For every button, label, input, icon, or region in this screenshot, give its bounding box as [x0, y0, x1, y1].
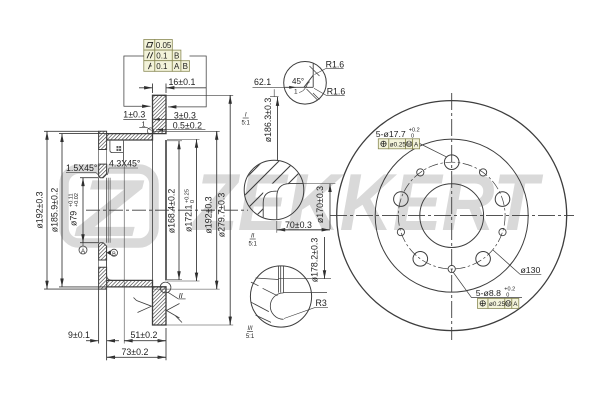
section: small circle marker at top wall/ring junction	[147, 128, 153, 134]
svg-text:0.05: 0.05	[156, 41, 172, 50]
svg-text:ø192±0.3: ø192±0.3	[35, 191, 45, 228]
svg-text:II: II	[251, 234, 255, 240]
datum balloon B on flange face	[107, 249, 118, 257]
dimension 3±0.3	[153, 110, 198, 120]
front view: wheel bolt hole Ø17.7 #3	[413, 251, 428, 266]
svg-text:ø192±0.3: ø192±0.3	[204, 196, 214, 233]
detail II circle (hat corner detail)	[178, 150, 354, 230]
svg-text:0.1: 0.1	[156, 62, 168, 71]
svg-text:0: 0	[190, 200, 196, 203]
detail III circle (R3 fillet detail)	[250, 266, 327, 327]
section: mounting flange top (hatched, with bolt hole gap)	[99, 131, 107, 177]
svg-text:ø130: ø130	[521, 265, 541, 275]
front view: wheel bolt hole Ø17.7 #4	[476, 251, 491, 266]
section: hat top wall (hatched)	[107, 134, 153, 140]
svg-text:1: 1	[294, 89, 298, 96]
dimension 1±0.3	[123, 110, 146, 120]
detail I dimension Ø186.3±0.3	[263, 89, 279, 160]
front view: small hole Ø8.8 #5	[499, 229, 506, 236]
section: bore silhouette lines	[99, 178, 111, 243]
svg-text:51±0.2: 51±0.2	[131, 330, 158, 340]
front view: small hole Ø8.8 #4	[448, 265, 455, 272]
svg-text:5-ø8.8: 5-ø8.8	[476, 288, 501, 298]
svg-text:ø170±0.3: ø170±0.3	[315, 186, 325, 223]
svg-text:ø185.9±0.2: ø185.9±0.2	[50, 188, 60, 233]
svg-text:R3: R3	[316, 298, 327, 308]
detail I labels R1.6	[314, 59, 345, 96]
svg-text:B: B	[112, 251, 116, 257]
svg-text:B: B	[183, 62, 188, 71]
svg-text:ø172.1: ø172.1	[184, 205, 194, 232]
section: hat bottom wall (hatched)	[107, 280, 153, 287]
tolerance frame leaders to both friction faces	[124, 56, 206, 107]
section: friction ring bottom (hatched)	[153, 287, 167, 325]
watermark: Zekkert logo badge	[64, 164, 154, 254]
front view: centerlines	[330, 93, 574, 340]
detail I scale label I/5:1	[242, 113, 251, 127]
section: bottom inner corner fillet	[107, 246, 113, 280]
svg-text:R1.6: R1.6	[327, 86, 346, 96]
svg-text:+0.02: +0.02	[74, 193, 80, 207]
section: mounting flange bottom (hatched, with small hole gap)	[99, 243, 107, 289]
section view: disc axis centerline	[86, 209, 248, 211]
detail I circle (edge chamfer detail)	[284, 62, 327, 105]
surface roughness checks at bottom ring faces	[134, 298, 183, 323]
svg-text:3±0.3: 3±0.3	[174, 110, 196, 120]
front view: outer circle Ø279.7	[337, 101, 567, 331]
front view: wheel bolt hole Ø17.7 #1	[444, 155, 459, 170]
svg-text:1.5X45°: 1.5X45°	[66, 163, 97, 173]
tolerance frame (flatness / parallelism / runout)	[144, 40, 190, 72]
svg-text:ø79: ø79	[69, 211, 79, 226]
label 1 with leader to junction step	[139, 122, 151, 131]
dimension 16±0.1 (ring thickness)	[139, 77, 206, 93]
svg-text:5:1: 5:1	[246, 334, 255, 340]
svg-text:B: B	[174, 51, 179, 60]
detail II scale label II/5:1	[249, 234, 258, 248]
svg-text:ZEKKERT: ZEKKERT	[191, 158, 544, 248]
chamfer label 1.5X45°	[66, 163, 100, 177]
detail III label R3	[284, 298, 328, 319]
label Ø130 (bolt circle)	[493, 250, 542, 275]
dimension 73±0.2 (overall)	[107, 344, 166, 361]
svg-text:1±0.3: 1±0.3	[123, 110, 145, 120]
front view: small hole Ø8.8 #1	[480, 169, 487, 176]
label 5-Ø17.7 +0.2/0 with position frame	[376, 128, 447, 158]
svg-text:5-ø17.7: 5-ø17.7	[376, 129, 406, 139]
dimension Ø192±0.3 (right)	[153, 131, 220, 289]
svg-text:ø279.7±0.3: ø279.7±0.3	[217, 193, 227, 238]
svg-text:ø0.25: ø0.25	[390, 141, 407, 148]
svg-text:62.1: 62.1	[254, 77, 271, 87]
front view: friction band inner circle	[375, 139, 528, 292]
front view: small hole Ø8.8 #2	[417, 169, 424, 176]
front view: small hole Ø8.8 #3	[397, 229, 404, 236]
detail I dimension 62.1	[253, 77, 297, 87]
dimension Ø279.7±0.3 (disc OD)	[166, 95, 233, 325]
svg-text:ø178.2±0.3: ø178.2±0.3	[310, 238, 320, 283]
svg-text:0.5±0.2: 0.5±0.2	[173, 121, 202, 131]
front view: wheel bolt hole Ø17.7 #5	[495, 192, 510, 207]
svg-text:ø168.4±0.2: ø168.4±0.2	[167, 189, 177, 234]
svg-text:A: A	[174, 62, 180, 71]
svg-text:0.1: 0.1	[156, 51, 168, 60]
dimension Ø192±0.3 (left, flange OD)	[44, 131, 99, 289]
front view: wheel bolt hole Ø17.7 #2	[394, 192, 409, 207]
watermark: ZEKKERT text	[191, 158, 544, 248]
dimension 0.5±0.2	[156, 121, 205, 131]
svg-text:73±0.2: 73±0.2	[122, 347, 149, 357]
svg-text:16±0.1: 16±0.1	[169, 77, 196, 87]
svg-text:45°: 45°	[292, 77, 304, 86]
dimension Ø185.9±0.2 (left, hat wall OD)	[59, 134, 107, 287]
detail III scale label III/5:1	[246, 326, 255, 340]
svg-text:ø0.25: ø0.25	[489, 301, 506, 308]
svg-text:III: III	[247, 326, 252, 332]
datum balloon A at bore dimension	[79, 243, 87, 255]
dimension Ø172.1 +0.25/0	[167, 139, 200, 281]
label 5-Ø8.8 +0.2/0 with position frame	[453, 272, 522, 308]
detail II balloon marker at bottom junction	[160, 282, 186, 300]
dimension Ø168.4±0.2	[167, 141, 182, 280]
svg-text:M: M	[506, 302, 510, 308]
svg-text:70±0.3: 70±0.3	[285, 220, 312, 230]
front view: bolt circle Ø130 (dash-dot)	[398, 162, 505, 269]
detail II dimension Ø170±0.3	[302, 184, 335, 229]
section: inner step pocket with clip detail	[110, 141, 124, 162]
svg-text:9±0.1: 9±0.1	[68, 330, 90, 340]
section: ring faces between walls	[153, 140, 167, 280]
svg-text:A: A	[81, 249, 85, 255]
svg-text:5:1: 5:1	[242, 121, 251, 127]
dimension 9±0.1 (flange thickness)	[68, 289, 119, 343]
svg-text:R1.6: R1.6	[326, 59, 345, 69]
svg-text:M: M	[407, 142, 411, 148]
front view: center bore Ø79	[420, 184, 484, 248]
detail III dimension Ø178.2±0.3	[279, 237, 332, 282]
section: friction ring top (hatched)	[153, 95, 167, 133]
svg-text:5:1: 5:1	[249, 242, 258, 248]
svg-text:4.3X45°: 4.3X45°	[109, 159, 140, 169]
svg-text:ø186.3±0.3: ø186.3±0.3	[263, 98, 273, 143]
dimension 51±0.2	[124, 163, 166, 344]
detail II dimension 70±0.3	[277, 220, 330, 233]
chamfer label 4.3X45°	[108, 159, 141, 176]
dimension Ø79 +0.11/+0.02 (bore)	[80, 178, 99, 243]
